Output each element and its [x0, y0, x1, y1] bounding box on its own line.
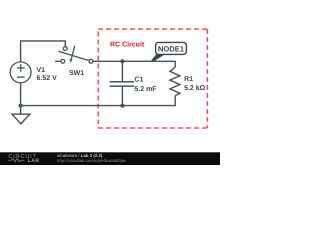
wire V1 top to corner: [21, 41, 66, 62]
wire ground stub: [20, 106, 22, 115]
ground: [12, 114, 30, 124]
svg-text:RC Circuit: RC Circuit: [110, 41, 145, 49]
wire capacitor branch top: [121, 61, 123, 81]
junction node at capacitor top: [120, 59, 124, 63]
wire resistor bottom: [21, 96, 176, 106]
resistor R1: [170, 67, 180, 96]
wire V1 bottom: [20, 83, 22, 106]
watermark bar: [0, 152, 220, 165]
svg-text:SW1: SW1: [69, 70, 84, 77]
junction node at capacitor bottom: [120, 104, 124, 108]
node label NODE1 tail: [151, 54, 165, 62]
svg-text:NODE1: NODE1: [158, 44, 185, 53]
svg-text:http://circuitlab.com/c4ye3cw5: http://circuitlab.com/c4ye3cw5a53pe: [57, 158, 126, 163]
svg-text:LAB: LAB: [28, 158, 40, 164]
node label NODE1: [156, 42, 187, 54]
svg-text:R1: R1: [184, 76, 193, 83]
svg-text:V1: V1: [37, 67, 46, 74]
switch arrow head: [69, 59, 72, 63]
wire capacitor branch bottom: [121, 87, 123, 106]
svg-text:C1: C1: [134, 76, 143, 83]
watermark logo resistor squiggle: [8, 159, 24, 162]
svg-text:5.2 mF: 5.2 mF: [134, 86, 157, 93]
switch SW1: [55, 46, 93, 63]
voltage source V1: [10, 62, 31, 83]
capacitor C1: [110, 82, 135, 86]
svg-text:5.2 kΩ: 5.2 kΩ: [184, 84, 206, 92]
junction node at V1 bottom: [19, 104, 23, 108]
wire switch to resistor corner: [93, 61, 175, 67]
svg-text:6.52 V: 6.52 V: [37, 75, 58, 82]
annotation box RC Circuit (red dashed): [98, 29, 207, 128]
